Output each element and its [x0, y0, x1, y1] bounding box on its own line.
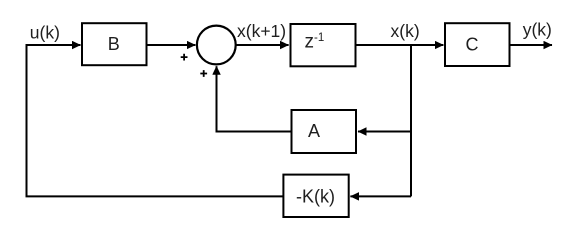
wire: x(k) node to A [358, 131, 411, 133]
wire: output y(k) [511, 44, 553, 46]
wire: B to summing junction [147, 44, 196, 46]
block -K(k) (feedback gain) [283, 175, 348, 217]
svg-text:x(k+1): x(k+1) [237, 21, 286, 41]
wire: x(k) node to -K(k) [350, 195, 411, 197]
block C [445, 23, 510, 66]
svg-text:A: A [308, 121, 320, 141]
block B [82, 23, 147, 65]
node x(k) branch: vertical tap line [410, 45, 412, 196]
wire: z^-1 to C (x(k) line) [356, 44, 444, 46]
plus sign (bottom input) [200, 70, 207, 77]
svg-text:y(k): y(k) [523, 20, 552, 40]
svg-text:-K(k): -K(k) [296, 187, 335, 207]
block z^-1 (unit delay) [291, 24, 356, 66]
block A [292, 110, 357, 153]
svg-text:u(k): u(k) [30, 23, 60, 43]
plus sign (left input) [181, 54, 188, 61]
wire: feedback into B (left vertical + u(k) segment) [27, 45, 284, 196]
wire: A output up into summing junction [217, 66, 292, 131]
wire: summing junction to z^-1 [236, 44, 289, 46]
summing junction [197, 26, 236, 65]
svg-text:B: B [108, 34, 120, 54]
svg-text:C: C [466, 34, 479, 54]
svg-text:x(k): x(k) [391, 21, 420, 41]
